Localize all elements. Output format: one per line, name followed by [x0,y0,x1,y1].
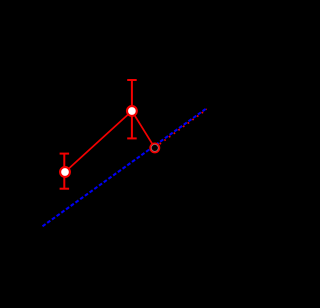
red dashed model extension [159,109,207,144]
error bar E1 [60,154,70,189]
red solid connecting line [65,111,155,172]
blue dashed model line [43,108,208,226]
open circle P3 [150,143,159,152]
data point P1 [60,167,70,177]
data point P2 [127,106,137,116]
error bar E2 [127,80,137,138]
open circle P3 inner gray ring [151,144,158,151]
